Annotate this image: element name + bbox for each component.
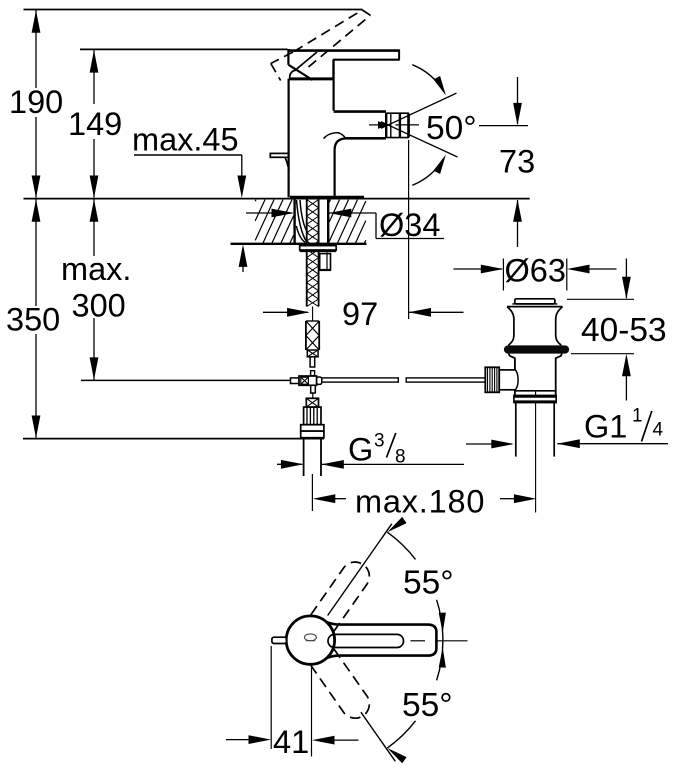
- dimension Ø34 hole diameter: [246, 207, 444, 243]
- dimension 73 (spout height): [499, 77, 535, 247]
- dimension 190: [9, 10, 63, 198]
- svg-text:4: 4: [653, 420, 664, 441]
- faucet body right edge lower: [334, 150, 336, 198]
- drain actuating arm: [499, 370, 515, 390]
- svg-text:40-53: 40-53: [581, 312, 667, 349]
- svg-text:50°: 50°: [426, 110, 477, 147]
- handle hub left edge: [287, 49, 289, 65]
- svg-text:73: 73: [499, 144, 535, 180]
- svg-text:190: 190: [9, 84, 63, 120]
- svg-text:350: 350: [6, 302, 60, 338]
- check valve (x-box): [306, 398, 318, 407]
- flexible hose curves inside hole: [296, 200, 308, 243]
- hole left wall: [293, 199, 295, 244]
- spout lower-left corner: [335, 138, 346, 150]
- svg-text:Ø34: Ø34: [379, 207, 440, 243]
- 55deg arc central segment across centerline: [437, 600, 443, 681]
- dimension 40-53: [567, 259, 667, 401]
- faucet base thick line: [290, 196, 364, 199]
- spout top edge: [334, 110, 386, 113]
- dimension max.180: [312, 474, 536, 520]
- handle hub right edge: [332, 60, 334, 79]
- dimension G1 1/4: [466, 406, 668, 449]
- drain tailpipe: [515, 403, 517, 457]
- pop-up rod lever (rear, sticking left): [270, 153, 289, 170]
- dimension max.45 (counter thickness): [132, 122, 247, 273]
- dimension G3/8: [277, 431, 464, 469]
- svg-text:8: 8: [395, 447, 406, 468]
- svg-text:Ø63: Ø63: [505, 253, 566, 289]
- 50 deg upper arc with arrowhead: [412, 65, 446, 96]
- plan view: lever top-surface inner outline: [328, 634, 404, 647]
- mounting plane line: [24, 198, 530, 200]
- 55deg ray (lower): [361, 712, 395, 761]
- hose gap centerline: [312, 307, 314, 322]
- drain outlet ring: [514, 395, 556, 402]
- dimension O63: [454, 253, 617, 291]
- check valve base flanges: [301, 425, 324, 438]
- faucet body left edge: [288, 79, 290, 198]
- mounting nut (right side): [320, 252, 331, 270]
- svg-text:G: G: [348, 432, 373, 468]
- drain o-ring seal (black band): [504, 345, 569, 353]
- dimension 350: [6, 199, 60, 438]
- tee fitting: [291, 376, 322, 393]
- aerator: [386, 113, 409, 138]
- dimension max.300: [61, 199, 131, 380]
- counter section hatching left of hole: [255, 200, 293, 243]
- svg-text:41: 41: [273, 724, 309, 760]
- counter section hatching right of hole: [329, 200, 366, 243]
- 50 deg spray angle rays: [381, 93, 458, 157]
- svg-text:1: 1: [632, 406, 643, 427]
- spout/body fillet curve: [324, 133, 346, 139]
- plan view: centerline dashes: [411, 640, 426, 642]
- plan view: dashed lever raised, swivelled up 55deg: [311, 562, 369, 631]
- G3/8 connection pipes: [303, 438, 305, 476]
- 55deg arc lower with arrowheads: [387, 721, 415, 748]
- flexible hose (lower): [306, 321, 319, 350]
- svg-text:max.: max.: [61, 251, 131, 287]
- flow direction arrow at aerator: [378, 121, 391, 128]
- handle hub bottom (cap) thick line: [289, 77, 333, 80]
- 50 deg lower arc with arrowhead: [412, 155, 446, 186]
- pop-up rod (horizontal, to drain): [322, 378, 486, 382]
- reference line for 149 (lever top): [80, 48, 288, 50]
- 55deg arc upper with arrowheads: [387, 532, 415, 559]
- dashed raised lever (open position): [271, 10, 371, 81]
- plan view: pop-up rod stub: [272, 637, 287, 643]
- hose end fitting with clamp (x-box): [307, 350, 318, 376]
- hub bottom-left corner arc: [290, 70, 297, 79]
- counter bottom line: [231, 243, 367, 245]
- svg-text:300: 300: [72, 288, 126, 324]
- threaded shank with flexible hose (upper): [307, 200, 319, 307]
- hub internal edge (raised lever root): [295, 52, 317, 70]
- svg-text:max.45: max.45: [132, 122, 239, 158]
- link to check valve: [312, 393, 314, 399]
- drain centerline: [535, 390, 537, 513]
- svg-text:max.180: max.180: [355, 484, 485, 520]
- svg-text:55°: 55°: [403, 565, 454, 602]
- lever bottom edge: [333, 59, 400, 61]
- bottom reference line for 350: [23, 438, 324, 440]
- mounting washer under counter: [300, 246, 337, 250]
- svg-text:55°: 55°: [402, 687, 453, 724]
- svg-text:149: 149: [68, 106, 122, 142]
- top reference line (handle max height): [24, 9, 363, 11]
- check valve knurled body: [304, 407, 321, 425]
- svg-text:97: 97: [342, 296, 378, 332]
- lever top edge: [288, 49, 399, 52]
- spout bottom edge: [346, 137, 387, 140]
- 50deg leader line: [479, 125, 528, 127]
- 55deg ray (upper): [328, 524, 392, 616]
- svg-text:G1: G1: [584, 409, 627, 445]
- dimension 149: [68, 50, 122, 198]
- dimension 41: [226, 646, 359, 760]
- svg-text:3: 3: [374, 431, 385, 452]
- plan view: grohe logo engraving: [304, 634, 316, 641]
- hub internal edge 2: [289, 65, 313, 80]
- faucet body right edge upper: [333, 60, 335, 111]
- plan view: dashed lever raised, swivelled down 55deg: [311, 649, 369, 718]
- max.300 bottom extension / pop-up rod line: [81, 379, 292, 381]
- aerator centerline dashes: [369, 124, 378, 126]
- dimension 97 (spout projection): [263, 296, 464, 332]
- lever right edge: [398, 49, 400, 59]
- drain knurled adjusting knob: [485, 367, 499, 392]
- drain plug cap: [512, 299, 557, 304]
- plan view: lever (horizontal position): [327, 622, 437, 658]
- drain body below o-ring: [509, 354, 562, 396]
- drain trumpet flare: [507, 307, 563, 346]
- hole right wall: [327, 199, 329, 244]
- extension line from aerator face: [408, 140, 410, 319]
- plan view: faucet body circle: [286, 616, 334, 664]
